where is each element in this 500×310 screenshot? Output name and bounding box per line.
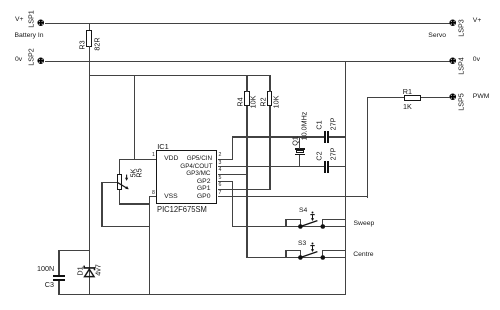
- wire pin 8: [149, 196, 157, 197]
- wire VDD drop to pin 1: [134, 75, 135, 159]
- label 0v (left): [15, 56, 22, 63]
- wire pin 6: [218, 189, 271, 190]
- S3 right contact post: [322, 250, 323, 257]
- wire crystal top stub: [299, 136, 300, 148]
- pin number 4: [219, 168, 222, 173]
- label LSP4: [457, 57, 464, 75]
- pin number 8: [152, 191, 155, 196]
- label C1: [316, 121, 323, 130]
- wire C2 right stub: [329, 166, 346, 167]
- wire R3 to D1 column: [89, 46, 90, 295]
- label D1: [77, 266, 84, 275]
- IC U1 box: [156, 150, 218, 204]
- label 10K (R4): [249, 95, 256, 108]
- wire pin 2: [218, 159, 233, 160]
- wire R3 column top: [89, 23, 90, 31]
- wire pot top column: [119, 159, 120, 175]
- IC pin name GP4/COUT: [180, 163, 210, 170]
- wire PWM riser: [367, 97, 368, 198]
- label 82R: [93, 37, 100, 50]
- wire R4 bottom to S3: [246, 106, 247, 258]
- label V+ (left): [15, 16, 24, 23]
- capacitor C3: [53, 275, 64, 277]
- wire pin 2 riser: [232, 136, 233, 160]
- wire pin 3 (crystal bottom line): [218, 166, 325, 167]
- label 1K: [403, 103, 412, 110]
- wire C3 top link: [58, 250, 89, 251]
- label 4v7: [94, 265, 101, 277]
- label C3: [45, 281, 54, 288]
- label Centre: [353, 251, 373, 258]
- label LSP1: [28, 10, 35, 28]
- pin number 7: [219, 191, 222, 196]
- label PWM: [473, 93, 490, 100]
- label 10K (R2): [272, 95, 279, 108]
- wire pin 4: [218, 174, 248, 175]
- label R5: [136, 169, 143, 178]
- wire ground column: [345, 61, 346, 296]
- label Servo: [428, 32, 446, 39]
- wire wiper horizontal: [101, 182, 117, 183]
- S3 junction dots and arm: [295, 241, 327, 263]
- pin number 5: [219, 176, 222, 181]
- label R3: [78, 40, 85, 49]
- wire pot bottom link: [119, 203, 150, 204]
- label 10.0MHz: [300, 111, 307, 140]
- label S3: [298, 240, 306, 247]
- wire pin 1: [119, 159, 157, 160]
- label LSP2: [28, 48, 35, 66]
- label 27P (C1): [329, 118, 336, 131]
- label Sweep: [354, 220, 375, 227]
- terminal LSP4: [449, 57, 457, 65]
- wire pin 7: [218, 196, 369, 197]
- label Battery In: [15, 32, 44, 39]
- pot R5 adjust arrow: [124, 174, 132, 183]
- wire R2 top: [269, 75, 270, 92]
- IC pin name VSS: [164, 193, 178, 200]
- diode D1 (zener 4v7): [80, 263, 100, 279]
- S4 left contact post: [285, 219, 286, 226]
- wire PWM horizontal: [367, 97, 405, 98]
- capacitor C1: [324, 131, 326, 142]
- wire crystal bottom stub: [299, 155, 300, 167]
- pin number 2: [219, 153, 222, 158]
- label PIC12F675SM: [157, 206, 207, 213]
- IC pin name GP2: [195, 178, 211, 185]
- label LSP5: [457, 93, 464, 111]
- capacitor C2: [324, 161, 326, 172]
- wire R2 bottom to pin 6: [269, 106, 270, 190]
- label R4: [237, 97, 244, 106]
- label 100N: [37, 265, 54, 272]
- label 27P (C2): [329, 148, 336, 161]
- wire wiper drop: [101, 182, 102, 227]
- wire VDD rail: [89, 75, 271, 76]
- wire pin 5 drop: [232, 181, 233, 226]
- resistor R1: [404, 95, 420, 100]
- label IC1: [157, 143, 169, 150]
- pin number 6: [219, 183, 222, 188]
- label 5K: [129, 169, 136, 178]
- resistor R2: [267, 91, 272, 106]
- wire C3 bottom column: [58, 281, 59, 295]
- label R2: [260, 97, 267, 106]
- IC pin name VDD: [164, 155, 178, 162]
- wire R4 top: [246, 75, 247, 92]
- label LSP3: [457, 19, 464, 37]
- wire VSS column: [149, 196, 150, 295]
- IC pin name GP0: [195, 193, 211, 200]
- S4 right contact post: [322, 219, 323, 226]
- IC pin name GP3/MC: [186, 170, 211, 177]
- label Q1: [291, 136, 298, 146]
- switch S3: [246, 257, 345, 258]
- wire wiper to VSS: [101, 226, 150, 227]
- wire crystal top line: [232, 136, 324, 137]
- IC pin name GP1: [195, 185, 211, 192]
- wire 0v rail: [45, 61, 451, 62]
- wire V+ rail: [45, 23, 451, 24]
- terminal LSP1: [37, 19, 45, 27]
- resistor R4: [244, 91, 249, 106]
- label R1: [403, 88, 412, 95]
- wire bottom ground rail: [58, 294, 346, 295]
- terminal LSP3: [449, 19, 457, 27]
- label V+ (right): [473, 17, 482, 24]
- wire C3 top column: [58, 250, 59, 276]
- crystal Q1: [295, 148, 306, 150]
- resistor R3: [86, 30, 93, 46]
- pin number 1: [152, 153, 155, 158]
- terminal LSP5: [449, 93, 457, 101]
- pin number 3: [219, 161, 222, 166]
- IC pin name GP5/CIN: [187, 155, 211, 162]
- S4 junction dots and arm: [295, 210, 327, 232]
- wire R1 to LSP5: [421, 97, 450, 98]
- wire pin 5: [218, 181, 233, 182]
- S3 left contact post: [285, 250, 286, 257]
- label S4: [299, 207, 307, 214]
- wire C1 right stub: [329, 136, 346, 137]
- switch S4: [232, 226, 346, 227]
- pot R5 wiper arrow: [113, 176, 133, 194]
- potentiometer R5: [117, 174, 122, 190]
- terminal LSP2: [37, 57, 45, 65]
- label 0v (right): [473, 56, 480, 63]
- label C2: [316, 151, 323, 160]
- wire pot bottom column: [119, 190, 120, 204]
